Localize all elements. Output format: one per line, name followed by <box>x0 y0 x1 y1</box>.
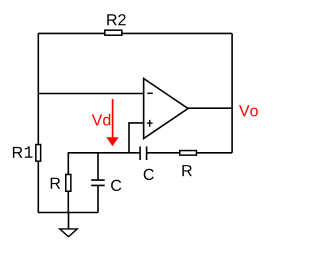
wire top feedback <box>38 32 232 34</box>
wire non-inverting input <box>129 122 144 153</box>
wire parallel C branch <box>97 153 99 213</box>
resistor R1 <box>13 145 41 162</box>
resistor R (series arm) <box>180 151 197 177</box>
op-amp U1 <box>144 79 188 139</box>
wire parallel R branch <box>67 153 69 213</box>
wire ground stem <box>68 213 70 229</box>
wire right vertical (output) <box>231 33 233 152</box>
capacitor C (parallel arm) <box>91 180 121 191</box>
wire inverting input <box>38 93 143 95</box>
resistor R2 <box>105 14 126 35</box>
wire bottom ground rail <box>38 212 98 214</box>
wire left vertical <box>37 33 39 212</box>
wire series RC rail <box>68 152 233 154</box>
node Vd differential arrow <box>92 99 119 146</box>
resistor R (parallel arm) <box>51 174 71 191</box>
capacitor C (series arm) <box>140 146 154 180</box>
wire op-amp output <box>188 107 232 109</box>
node Vo output label <box>239 105 258 116</box>
ground <box>60 229 78 237</box>
